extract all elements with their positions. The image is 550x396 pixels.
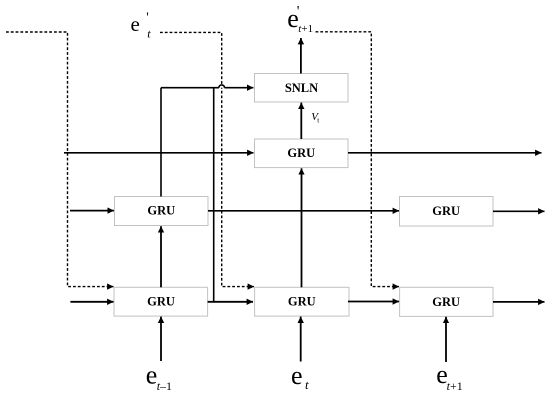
label e_t	[291, 361, 309, 392]
svg-text:SNLN: SNLN	[285, 81, 318, 95]
svg-text:t: t	[147, 26, 151, 40]
svg-text:GRU: GRU	[288, 295, 316, 309]
arrow SNLN up to e't+1	[300, 38, 302, 74]
svg-text:GRU: GRU	[147, 295, 175, 309]
svg-text:e: e	[291, 361, 303, 390]
arrow GRU U1 to SNLN (Vt)	[300, 103, 302, 139]
svg-text:e: e	[131, 12, 140, 36]
svg-text:GRU: GRU	[147, 204, 175, 218]
svg-text:t: t	[305, 377, 309, 392]
svg-text:GRU: GRU	[432, 295, 460, 309]
svg-text:GRU: GRU	[432, 204, 460, 218]
box SNLN	[255, 74, 349, 103]
dashed feedback wire from e't+1 into GRU U6	[316, 32, 400, 287]
short arrow into GRU U2	[70, 210, 114, 212]
label e't	[131, 11, 152, 41]
box GRU U1 (top centre)	[255, 139, 349, 168]
box GRU U5 (bottom middle)	[255, 287, 349, 316]
wire with hop into SNLN left input	[161, 85, 253, 88]
svg-text:t+1: t+1	[298, 23, 313, 35]
svg-text:t–1: t–1	[157, 379, 172, 393]
svg-text:t: t	[317, 117, 319, 125]
long state wire into GRU U1 from the left	[64, 152, 254, 154]
wire from GRU U2 up to SNLN input (vertical at x=161)	[160, 88, 162, 197]
label Vt	[311, 111, 319, 125]
box GRU U3 (middle right)	[400, 197, 494, 227]
input arrow e_t+1 up to GRU U6	[445, 317, 447, 362]
label e_t-1	[146, 361, 172, 393]
box GRU U2 (middle left)	[115, 197, 209, 226]
arrow GRU U4 up to GRU U2	[160, 226, 162, 287]
state wire out of GRU U1 to right edge	[348, 152, 542, 154]
state wire GRU U5 to GRU U6	[348, 301, 399, 303]
state wire GRU U4 to GRU U5	[208, 301, 253, 303]
state wire GRU U2 to GRU U3	[208, 210, 399, 212]
dashed feedback wire from left margin into GRU U4	[6, 32, 114, 287]
short arrow into GRU U4	[70, 301, 113, 303]
label e't+1	[287, 4, 313, 36]
box GRU U4 (bottom left)	[114, 287, 208, 316]
dashed feedback wire from e't into GRU U5	[160, 32, 254, 286]
svg-text:': '	[146, 11, 149, 26]
svg-text:e: e	[146, 361, 158, 390]
input arrow e_t-1 up to GRU U4	[160, 317, 162, 361]
wire branch from bottom state line up to SNLN line (vertical at x=214)	[213, 88, 215, 302]
input arrow e_t up to GRU U5	[300, 317, 302, 362]
state wire out of GRU U6 to right edge	[493, 301, 545, 303]
svg-text:GRU: GRU	[287, 146, 315, 160]
label e_t+1	[436, 360, 462, 393]
state wire out of GRU U3 to right edge	[493, 210, 545, 212]
arrow GRU U5 up to GRU U1	[301, 168, 303, 287]
svg-text:t+1: t+1	[447, 379, 463, 393]
box GRU U6 (bottom right)	[400, 287, 493, 316]
svg-text:': '	[297, 4, 300, 20]
